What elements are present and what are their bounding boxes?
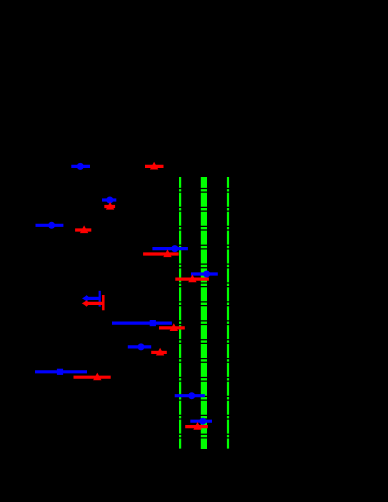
row 4 blue error bar (152, 247, 188, 250)
row 1 blue error bar (71, 165, 90, 168)
row 8 red triangle marker (156, 348, 164, 356)
row 9 blue square marker (57, 369, 63, 375)
row 7 red error bar (159, 326, 185, 329)
row 9 red error bar (74, 376, 111, 379)
row 6 red diamond marker (83, 300, 90, 306)
average band left edge line (green dash-dot-dot) (179, 177, 181, 449)
row 6 blue diamond marker (83, 295, 90, 301)
row 5 red error bar (175, 278, 209, 281)
row 2 blue error bar (102, 198, 116, 201)
row 2 red error bar (104, 205, 115, 208)
row 11 blue error bar (190, 420, 212, 423)
row 1 red error bar (145, 165, 164, 168)
row 4 red triangle marker (163, 249, 171, 257)
row 8 red error bar (151, 351, 167, 354)
row 10 blue circle marker (188, 392, 195, 399)
row 4 red error bar (143, 252, 179, 255)
row 6 red limit end cap (102, 295, 105, 310)
row 11 blue circle marker (199, 418, 206, 425)
row 7 red triangle marker (170, 323, 178, 331)
row 7 blue error bar (112, 322, 172, 325)
row 6 blue limit end cap (99, 291, 101, 307)
row 6 red arrow head tip (82, 301, 86, 306)
row 8 blue error bar (128, 345, 151, 348)
row 6 blue arrow head tip (82, 296, 86, 301)
row 3 red error bar (75, 228, 91, 231)
row 2 red triangle marker (106, 202, 114, 210)
row 7 blue square marker (150, 320, 156, 326)
row 5 blue circle marker (203, 271, 210, 278)
row 6 red upper-limit arrow shaft (86, 302, 104, 305)
row 1 blue circle marker (77, 163, 84, 170)
row 5 red triangle marker (188, 275, 196, 283)
row 9 red triangle marker (93, 373, 101, 381)
row 9 blue error bar (35, 370, 87, 373)
row 11 red error bar (185, 425, 208, 428)
row 3 blue circle marker (48, 222, 55, 229)
row 10 blue error bar (175, 394, 205, 397)
row 1 red triangle marker (150, 162, 158, 170)
row 6 blue upper-limit arrow shaft (87, 297, 100, 300)
row 11 red triangle marker (193, 422, 201, 430)
row 4 blue circle marker (171, 245, 178, 252)
row 5 blue error bar (191, 272, 218, 275)
row 3 red triangle marker (80, 225, 88, 233)
row 3 blue error bar (36, 224, 64, 227)
row 2 blue circle marker (106, 197, 113, 204)
average central value line (thick green dash-dot-dot) (201, 177, 207, 449)
row 8 blue circle marker (138, 343, 145, 350)
average band right edge line (green dash-dot-dot) (227, 177, 229, 449)
